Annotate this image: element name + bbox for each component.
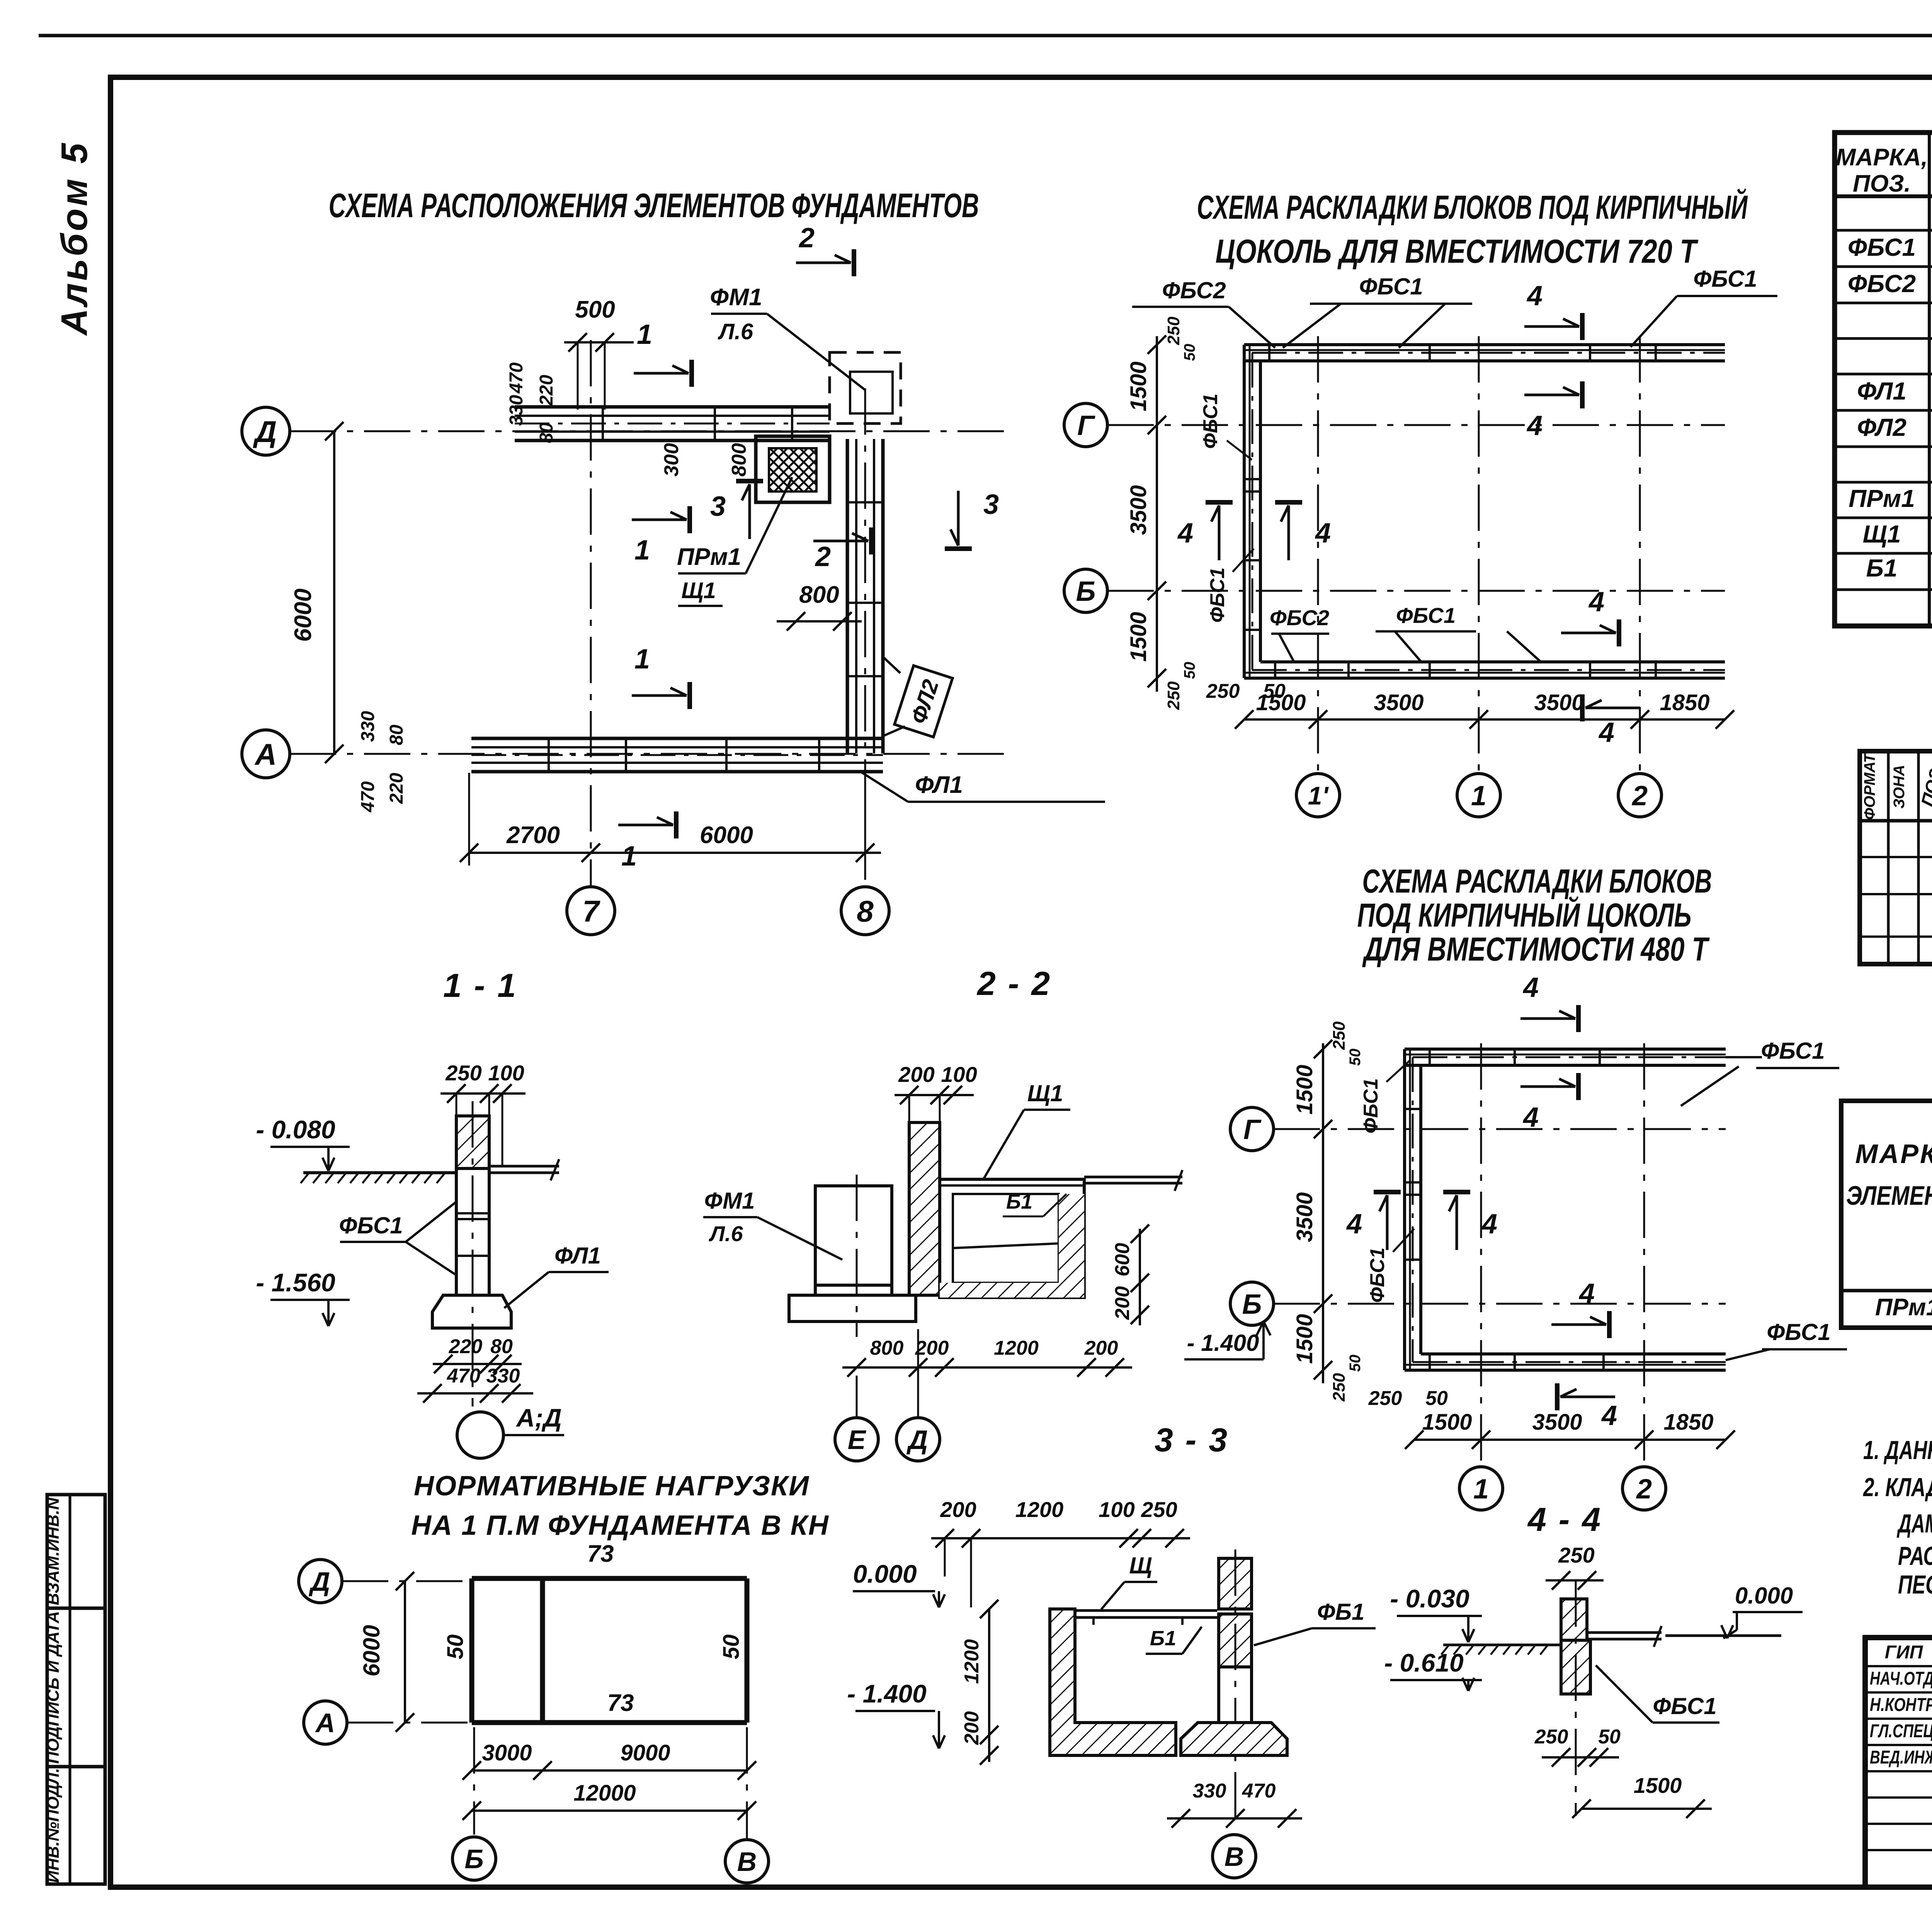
svg-text:Г: Г xyxy=(1243,1114,1262,1145)
svg-text:330: 330 xyxy=(1193,1780,1226,1802)
plan3 axis circle 2 xyxy=(1622,1467,1666,1510)
plan2 section marks 4 xyxy=(1580,313,1585,340)
components table grid xyxy=(1835,133,1932,626)
svg-text:2 - 2: 2 - 2 xyxy=(976,965,1051,1002)
svg-text:ДЛЯ ВМЕСТИМОСТИ 480 Т: ДЛЯ ВМЕСТИМОСТИ 480 Т xyxy=(1362,931,1710,968)
svg-text:Л.6: Л.6 xyxy=(708,1221,743,1246)
plan1 section mark 2 mid xyxy=(869,527,874,554)
plan2 axis circle B xyxy=(1064,569,1107,612)
plan1 axis A line xyxy=(290,753,1012,755)
plan2 axis circle 1' xyxy=(1296,774,1340,817)
sec22 axis circle D xyxy=(896,1418,940,1461)
plan1 FM1 dashed outline xyxy=(830,352,901,423)
plan1 bottom wall strip xyxy=(471,754,883,756)
svg-text:3500: 3500 xyxy=(1534,690,1584,715)
plan1 axis circle A xyxy=(242,730,290,778)
embedded items table grid xyxy=(1841,1101,1932,1328)
plan1 section mark 1 mid xyxy=(687,506,692,533)
svg-text:1: 1 xyxy=(637,319,652,350)
svg-text:470: 470 xyxy=(1242,1780,1276,1802)
svg-text:800: 800 xyxy=(728,443,750,477)
plan3 top strip xyxy=(1413,1056,1726,1058)
plan2 axis 1 line xyxy=(1478,336,1480,774)
plan2 top strip xyxy=(1252,352,1725,354)
svg-text:4: 4 xyxy=(1578,1278,1595,1309)
plan3 axis circle 1 xyxy=(1459,1467,1503,1510)
plan1 section mark 1 bottom xyxy=(674,811,679,838)
svg-text:Щ1: Щ1 xyxy=(1027,1080,1063,1106)
svg-text:200: 200 xyxy=(915,1337,949,1359)
svg-text:ПОДПИСЬ И ДАТА: ПОДПИСЬ И ДАТА xyxy=(44,1611,63,1764)
svg-text:НОРМАТИВНЫЕ НАГРУЗКИ: НОРМАТИВНЫЕ НАГРУЗКИ xyxy=(414,1471,810,1502)
svg-text:300: 300 xyxy=(660,443,683,477)
svg-text:1200: 1200 xyxy=(994,1337,1039,1359)
svg-text:ФБС1: ФБС1 xyxy=(1366,1247,1389,1303)
page top rule xyxy=(39,34,1932,37)
svg-text:100: 100 xyxy=(1099,1497,1134,1522)
svg-text:ФЛ1: ФЛ1 xyxy=(1857,377,1906,405)
svg-text:- 1.400: - 1.400 xyxy=(847,1679,927,1708)
loads axis circle B xyxy=(452,1837,496,1880)
plan2 axis circle 2 xyxy=(1618,774,1662,817)
svg-text:1850: 1850 xyxy=(1663,1410,1713,1435)
svg-text:В: В xyxy=(1225,1842,1244,1872)
svg-text:ФОРМАТ: ФОРМАТ xyxy=(1861,752,1878,820)
svg-text:330: 330 xyxy=(358,711,378,742)
svg-text:2: 2 xyxy=(798,223,815,253)
sec44 FBS1 block xyxy=(1561,1640,1590,1694)
svg-text:НА 1 П.М ФУНДАМЕНТА В КН: НА 1 П.М ФУНДАМЕНТА В КН xyxy=(411,1510,829,1541)
svg-text:Д: Д xyxy=(906,1425,928,1455)
svg-text:ФБС1: ФБС1 xyxy=(1761,1038,1825,1064)
svg-text:50: 50 xyxy=(1598,1726,1621,1748)
svg-text:4: 4 xyxy=(1522,972,1539,1003)
svg-text:1500: 1500 xyxy=(1126,361,1151,411)
plan1 axis circle 7 xyxy=(567,887,615,935)
svg-text:ФБС1: ФБС1 xyxy=(1206,567,1229,622)
sec11 floor slab right xyxy=(489,1165,559,1168)
svg-text:500: 500 xyxy=(575,296,615,323)
svg-text:250: 250 xyxy=(1534,1726,1568,1748)
svg-text:73: 73 xyxy=(587,1541,614,1567)
svg-text:250: 250 xyxy=(1164,316,1183,345)
svg-text:В: В xyxy=(737,1847,757,1877)
svg-text:3: 3 xyxy=(710,491,726,522)
svg-text:1': 1' xyxy=(1308,781,1329,810)
plan2 left dim chain xyxy=(1156,336,1158,692)
svg-text:МАРКА,: МАРКА, xyxy=(1836,144,1928,171)
plan1 axis D line xyxy=(290,430,1005,432)
svg-text:4: 4 xyxy=(1526,410,1543,441)
svg-text:2700: 2700 xyxy=(506,822,560,849)
svg-text:Б1: Б1 xyxy=(1866,554,1898,582)
sec22 right dims 600 200 xyxy=(1139,1229,1141,1325)
svg-text:50: 50 xyxy=(1181,662,1198,679)
svg-text:2: 2 xyxy=(1636,1474,1652,1505)
svg-text:1200: 1200 xyxy=(1015,1497,1064,1522)
plan1 section mark 2 top xyxy=(852,249,856,276)
svg-text:470: 470 xyxy=(447,1365,481,1387)
svg-text:100: 100 xyxy=(941,1062,977,1087)
loads rectangle xyxy=(472,1576,747,1581)
loads axis circle D xyxy=(299,1560,342,1603)
sec22 axis circle E xyxy=(835,1418,878,1461)
plan3 axis G line xyxy=(1274,1128,1726,1130)
svg-text:ПРм1: ПРм1 xyxy=(677,544,741,570)
sec33 axis circle V xyxy=(1213,1835,1256,1878)
plan1 section mark 3 left xyxy=(736,479,763,483)
svg-text:250: 250 xyxy=(1206,680,1240,702)
svg-text:ПОД КИРПИЧНЫЙ ЦОКОЛЬ: ПОД КИРПИЧНЫЙ ЦОКОЛЬ xyxy=(1357,896,1692,934)
plan3 axis 2 line xyxy=(1643,1043,1645,1467)
svg-text:250: 250 xyxy=(1141,1497,1177,1522)
svg-text:250: 250 xyxy=(1330,1021,1349,1050)
svg-text:ФЛ1: ФЛ1 xyxy=(554,1243,601,1269)
svg-text:4 - 4: 4 - 4 xyxy=(1527,1501,1602,1538)
svg-text:50: 50 xyxy=(1263,680,1286,702)
svg-text:- 1.400: - 1.400 xyxy=(1187,1330,1259,1356)
svg-text:1: 1 xyxy=(1471,781,1486,811)
svg-text:Г: Г xyxy=(1077,410,1095,441)
svg-text:220: 220 xyxy=(449,1335,483,1358)
svg-text:50: 50 xyxy=(1347,1355,1364,1372)
svg-text:1200: 1200 xyxy=(961,1639,983,1684)
svg-text:ФБС1: ФБС1 xyxy=(1199,393,1222,449)
plan2 bottom dim chain xyxy=(1244,718,1725,721)
svg-text:200: 200 xyxy=(940,1497,976,1522)
plan3 left dim chain xyxy=(1322,1043,1324,1383)
svg-text:3000: 3000 xyxy=(482,1740,532,1765)
plan1 axis circle 8 xyxy=(841,887,889,935)
svg-text:Б1: Б1 xyxy=(1150,1627,1176,1650)
svg-text:Е: Е xyxy=(848,1425,867,1455)
svg-text:50: 50 xyxy=(443,1634,468,1660)
svg-text:6000: 6000 xyxy=(290,588,316,642)
plan2 axis G line xyxy=(1107,424,1725,426)
title block frame xyxy=(1865,1638,1932,1887)
svg-text:1500: 1500 xyxy=(1292,1065,1317,1114)
svg-text:470: 470 xyxy=(358,781,378,813)
svg-text:9000: 9000 xyxy=(620,1740,670,1765)
svg-text:3500: 3500 xyxy=(1532,1410,1582,1435)
svg-text:80: 80 xyxy=(536,422,557,443)
svg-text:250: 250 xyxy=(1558,1543,1594,1567)
svg-text:2. КЛАДКУ БЕТОННЫХ БЛОКОВ ЛЕН: 2. КЛАДКУ БЕТОННЫХ БЛОКОВ ЛЕНТОЧНЫХ ФУН- xyxy=(1862,1473,1932,1502)
svg-text:1: 1 xyxy=(621,841,637,872)
svg-text:ГЛ.СПЕЦ.: ГЛ.СПЕЦ. xyxy=(1870,1721,1932,1742)
svg-text:- 0.080: - 0.080 xyxy=(256,1115,335,1144)
loads axis A line xyxy=(347,1722,472,1724)
svg-text:ФБС1: ФБС1 xyxy=(1396,603,1456,628)
svg-text:Щ: Щ xyxy=(1129,1553,1152,1578)
svg-text:ФЛ1: ФЛ1 xyxy=(915,772,963,798)
svg-text:РАСТВОРЕ МАРКИ М50 ПО ПОДГО: РАСТВОРЕ МАРКИ М50 ПО ПОДГОТОВКЕ ИЗ xyxy=(1898,1541,1932,1571)
svg-text:ФБС2: ФБС2 xyxy=(1848,270,1916,298)
svg-text:470: 470 xyxy=(506,362,527,394)
svg-text:Д: Д xyxy=(309,1566,330,1597)
sec22 bottom dims xyxy=(842,1366,1132,1369)
svg-text:Б: Б xyxy=(1242,1289,1262,1320)
svg-text:ФБС1: ФБС1 xyxy=(1767,1319,1830,1345)
svg-text:3 - 3: 3 - 3 xyxy=(1155,1422,1229,1459)
svg-text:Щ1: Щ1 xyxy=(681,578,716,603)
plan1 bottom dim chain xyxy=(469,852,881,854)
sec33 footing right xyxy=(1181,1723,1287,1755)
plan1 right wall strip xyxy=(846,439,849,753)
svg-text:Б1: Б1 xyxy=(1006,1190,1032,1213)
plan2 axis circle G xyxy=(1064,403,1107,447)
svg-text:ФМ1: ФМ1 xyxy=(704,1188,755,1214)
plan2 axis circle 1 xyxy=(1457,774,1500,817)
sec22 pit walls xyxy=(940,1179,1084,1298)
svg-text:3500: 3500 xyxy=(1374,690,1423,715)
svg-text:ЦОКОЛЬ ДЛЯ ВМЕСТИМОСТИ 72: ЦОКОЛЬ ДЛЯ ВМЕСТИМОСТИ 720 Т xyxy=(1216,233,1699,270)
svg-text:1: 1 xyxy=(1473,1474,1489,1505)
sec33 pit L wall hatched xyxy=(1050,1609,1176,1755)
plan2 axis 1' line xyxy=(1317,336,1319,774)
svg-text:200: 200 xyxy=(898,1062,934,1087)
svg-text:6000: 6000 xyxy=(359,1625,384,1676)
svg-text:4: 4 xyxy=(1481,1209,1497,1240)
svg-text:ФБС2: ФБС2 xyxy=(1162,277,1226,303)
svg-text:2: 2 xyxy=(815,541,831,572)
plan2 left strip xyxy=(1252,353,1253,670)
svg-text:1: 1 xyxy=(634,644,650,675)
svg-text:Д: Д xyxy=(253,415,277,449)
plan3 section marks 4 xyxy=(1576,1005,1581,1032)
plan3 left strip xyxy=(1412,1057,1414,1362)
svg-text:ЭЛЕМЕНТА: ЭЛЕМЕНТА xyxy=(1846,1180,1932,1211)
svg-text:0.000: 0.000 xyxy=(853,1560,917,1588)
sec33 pit cover lines xyxy=(1075,1609,1217,1612)
sec33 vertical dims xyxy=(988,1609,990,1762)
svg-text:220: 220 xyxy=(386,773,407,804)
sec11 ground line xyxy=(303,1171,456,1174)
svg-text:3500: 3500 xyxy=(1126,485,1151,535)
svg-text:3500: 3500 xyxy=(1292,1192,1317,1242)
plan1 axis 8 line xyxy=(864,388,866,887)
plan1 axis 7 line xyxy=(590,340,592,887)
loads axis D line xyxy=(342,1580,472,1582)
plan1 top wall strip xyxy=(515,423,830,425)
svg-text:250: 250 xyxy=(1330,1373,1349,1402)
svg-text:4: 4 xyxy=(1598,717,1614,748)
sec11 FBS wall xyxy=(456,1168,489,1295)
svg-text:ФЛ2: ФЛ2 xyxy=(1857,413,1906,441)
svg-text:100: 100 xyxy=(488,1061,524,1085)
svg-text:4: 4 xyxy=(1346,1209,1362,1240)
svg-text:8: 8 xyxy=(857,894,874,928)
svg-text:4: 4 xyxy=(1177,518,1193,549)
plan1 section mark 1 low xyxy=(687,682,692,709)
svg-text:Б: Б xyxy=(464,1844,484,1874)
sec11 plinth hatched xyxy=(456,1116,489,1168)
svg-text:80: 80 xyxy=(386,724,407,745)
plan3 bottom strip xyxy=(1413,1361,1726,1363)
svg-text:СХЕМА РАСКЛАДКИ БЛОКОВ: СХЕМА РАСКЛАДКИ БЛОКОВ xyxy=(1362,863,1712,900)
svg-text:ФБС1: ФБС1 xyxy=(1693,266,1757,292)
svg-text:7: 7 xyxy=(582,894,600,928)
loads axis circle A xyxy=(304,1701,347,1744)
svg-text:ПЕСКА ТОЛЩИНОЙ 100 ММ.: ПЕСКА ТОЛЩИНОЙ 100 ММ. xyxy=(1898,1569,1932,1599)
plan3 axis 1 line xyxy=(1480,1043,1482,1467)
svg-text:СХЕМА РАСПОЛОЖЕНИЯ ЭЛЕМЕНТОВ: СХЕМА РАСПОЛОЖЕНИЯ ЭЛЕМЕНТОВ ФУНДАМЕНТОВ xyxy=(329,186,979,224)
sec44 plinth hatched xyxy=(1561,1599,1587,1640)
svg-text:ПРм1: ПРм1 xyxy=(1875,1294,1932,1321)
svg-text:- 0.030: - 0.030 xyxy=(1390,1584,1469,1613)
svg-text:250: 250 xyxy=(445,1061,481,1085)
loads axis circle V xyxy=(725,1840,769,1883)
svg-text:1850: 1850 xyxy=(1660,690,1709,715)
svg-text:1500: 1500 xyxy=(1292,1314,1317,1364)
svg-text:ЗОНА: ЗОНА xyxy=(1891,765,1908,809)
svg-text:2: 2 xyxy=(1631,781,1648,811)
svg-text:1. ДАННЫЕ О ГРУНТОВЫХ УСЛОВИЯ: 1. ДАННЫЕ О ГРУНТОВЫХ УСЛОВИЯХ СМ. ЛИСТ … xyxy=(1863,1435,1932,1465)
sec11 FL1 footing xyxy=(432,1295,511,1328)
plan1 section mark 3 right xyxy=(945,546,972,551)
plan3 bottom dim chain xyxy=(1414,1439,1726,1441)
plan1 section mark 1 top xyxy=(689,360,694,387)
svg-text:ФБС1: ФБС1 xyxy=(1653,1693,1716,1719)
svg-text:50: 50 xyxy=(1425,1387,1448,1410)
svg-text:ГИП: ГИП xyxy=(1885,1642,1923,1663)
svg-text:1: 1 xyxy=(634,535,650,566)
sec22 FM1 column xyxy=(815,1186,892,1295)
svg-text:50: 50 xyxy=(1347,1049,1364,1066)
svg-text:0.000: 0.000 xyxy=(1735,1583,1793,1609)
svg-text:СХЕМА РАСКЛАДКИ БЛОКОВ ПОД КИР: СХЕМА РАСКЛАДКИ БЛОКОВ ПОД КИРПИЧНЫЙ xyxy=(1197,189,1748,226)
plan2 axis 2 line xyxy=(1639,336,1641,774)
svg-text:250: 250 xyxy=(1368,1387,1402,1410)
svg-text:200: 200 xyxy=(961,1711,983,1745)
svg-text:800: 800 xyxy=(799,582,839,608)
svg-text:1500: 1500 xyxy=(1126,612,1151,662)
loads bottom dims xyxy=(472,1769,747,1772)
specification table grid xyxy=(1860,751,1932,964)
svg-text:73: 73 xyxy=(607,1690,634,1716)
svg-text:220: 220 xyxy=(536,375,557,406)
plan1 axis circle D xyxy=(242,407,290,455)
svg-text:ПРм1: ПРм1 xyxy=(1849,485,1915,512)
svg-text:- 1.560: - 1.560 xyxy=(256,1268,335,1297)
sec44 center axis xyxy=(1575,1580,1577,1816)
sec44 floor slab xyxy=(1587,1631,1662,1634)
svg-text:ФБС1: ФБС1 xyxy=(1359,274,1423,299)
svg-text:А: А xyxy=(254,737,277,771)
svg-text:Л.6: Л.6 xyxy=(718,319,753,344)
sec11 axis circle A;D xyxy=(457,1412,503,1458)
svg-text:Б: Б xyxy=(1076,576,1096,607)
svg-text:330: 330 xyxy=(486,1365,520,1387)
svg-text:80: 80 xyxy=(490,1335,513,1358)
left sidebar stamp boxes xyxy=(47,1495,105,1884)
plan3 axis circle B xyxy=(1230,1282,1274,1325)
svg-text:4: 4 xyxy=(1601,1400,1617,1431)
svg-text:ВЕД.ИНЖ: ВЕД.ИНЖ xyxy=(1870,1747,1932,1768)
svg-text:МАРКА: МАРКА xyxy=(1855,1139,1932,1169)
svg-text:1500: 1500 xyxy=(1634,1773,1682,1798)
svg-text:250: 250 xyxy=(1164,681,1183,710)
svg-text:А: А xyxy=(315,1708,335,1738)
svg-text:ИНВ.№ПОДЛ.: ИНВ.№ПОДЛ. xyxy=(44,1768,63,1883)
svg-text:Н.КОНТР.: Н.КОНТР. xyxy=(1870,1695,1932,1715)
svg-text:ФМ1: ФМ1 xyxy=(710,284,762,311)
svg-text:50: 50 xyxy=(719,1634,744,1660)
svg-text:4: 4 xyxy=(1526,281,1543,311)
plan2 bottom strip xyxy=(1252,669,1725,671)
svg-text:ФБС2: ФБС2 xyxy=(1270,605,1329,630)
svg-text:1500: 1500 xyxy=(1422,1410,1472,1435)
svg-text:4: 4 xyxy=(1588,587,1604,617)
svg-text:ФБС1: ФБС1 xyxy=(1848,233,1916,261)
svg-text:800: 800 xyxy=(870,1337,904,1359)
svg-text:ФБС1: ФБС1 xyxy=(339,1213,403,1238)
plan3 axis circle G xyxy=(1230,1107,1274,1151)
svg-text:ФБС1: ФБС1 xyxy=(1360,1078,1382,1133)
svg-text:ДАМЕНТОВ ПРОИЗВОДИТЬ НА ЦЕМЕ: ДАМЕНТОВ ПРОИЗВОДИТЬ НА ЦЕМЕНТНОМ xyxy=(1896,1509,1932,1538)
plan1 monolithic pit PRm1 hatched xyxy=(756,436,830,502)
svg-text:1 - 1: 1 - 1 xyxy=(443,967,517,1004)
svg-text:600: 600 xyxy=(1111,1243,1134,1277)
svg-text:12000: 12000 xyxy=(573,1781,636,1806)
sec44 ground line xyxy=(1443,1644,1561,1646)
loads bottom axis stubs xyxy=(473,1727,475,1835)
plan1 label FL2 rotated box xyxy=(895,666,952,737)
svg-text:Щ1: Щ1 xyxy=(1863,520,1901,548)
svg-text:НАЧ.ОТД.: НАЧ.ОТД. xyxy=(1870,1668,1932,1689)
svg-text:Альбом 5: Альбом 5 xyxy=(54,141,95,336)
svg-text:ВЗАМ.ИНВ.N: ВЗАМ.ИНВ.N xyxy=(44,1497,63,1605)
sec11 center axis xyxy=(472,1101,474,1406)
sec22 plinth wall hatched xyxy=(909,1122,940,1295)
svg-text:- 0.610: - 0.610 xyxy=(1384,1648,1464,1677)
svg-text:200: 200 xyxy=(1084,1337,1118,1359)
svg-text:А;Д: А;Д xyxy=(515,1403,561,1432)
svg-text:330: 330 xyxy=(506,395,527,426)
svg-text:4: 4 xyxy=(1522,1102,1539,1133)
svg-text:200: 200 xyxy=(1111,1286,1134,1320)
svg-text:ПОЗ.: ПОЗ. xyxy=(1853,170,1911,197)
svg-text:6000: 6000 xyxy=(700,822,753,849)
svg-text:50: 50 xyxy=(1181,344,1198,361)
plan2 axis B line xyxy=(1107,590,1725,592)
plan3 axis B line xyxy=(1274,1303,1726,1305)
sec33 right column xyxy=(1219,1558,1252,1609)
svg-text:3: 3 xyxy=(983,489,999,520)
svg-text:ФБ1: ФБ1 xyxy=(1317,1599,1365,1625)
sec22 floor slab right xyxy=(1084,1176,1182,1179)
svg-text:4: 4 xyxy=(1315,518,1331,549)
